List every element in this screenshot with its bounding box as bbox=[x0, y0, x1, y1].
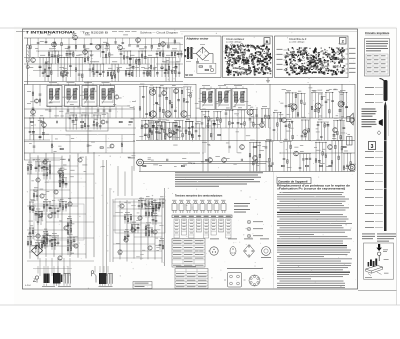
resistor R11 bbox=[150, 65, 152, 68]
resistor R40 bbox=[54, 42, 56, 45]
resistor R39 bbox=[30, 46, 32, 49]
wire W78 bbox=[144, 51, 146, 64]
wire W85 bbox=[174, 51, 176, 58]
wire W316 bbox=[334, 141, 336, 172]
wire W450 bbox=[27, 164, 29, 174]
wire W97 bbox=[92, 64, 94, 77]
value label 305 bbox=[58, 258, 62, 261]
dial scale dark bar bbox=[380, 79, 389, 232]
value label 98 bbox=[226, 107, 230, 110]
wire W256 bbox=[121, 135, 123, 153]
wire W129 bbox=[122, 38, 124, 45]
wire W5 bbox=[130, 44, 183, 46]
wire W28 bbox=[81, 58, 83, 82]
resistor R123 bbox=[244, 122, 246, 125]
junction J123 bbox=[31, 236, 32, 237]
junction J64 bbox=[256, 142, 257, 143]
wire W189 bbox=[141, 121, 143, 141]
value label 303 bbox=[50, 204, 54, 207]
value label 63 bbox=[184, 83, 188, 86]
resistor R14 bbox=[175, 70, 177, 73]
wire W130 bbox=[128, 38, 130, 45]
resistor R155 bbox=[49, 171, 51, 174]
value label 267 bbox=[159, 164, 162, 167]
wire W252 bbox=[51, 135, 53, 153]
wire W236 bbox=[24, 139, 50, 141]
value label 5 bbox=[112, 60, 117, 63]
transistor T41 bbox=[48, 214, 52, 218]
transistor T27 bbox=[222, 158, 227, 163]
junction J130 bbox=[63, 177, 64, 178]
loudspeaker LS1 bbox=[347, 113, 353, 125]
wire W332 bbox=[317, 122, 319, 141]
wire W421 bbox=[51, 239, 56, 241]
value label 237 bbox=[174, 165, 177, 168]
wire W549 bbox=[145, 227, 153, 229]
wire W146 bbox=[24, 127, 136, 129]
wire W76 bbox=[138, 51, 140, 64]
capacitor C117 bbox=[343, 128, 346, 129]
wire W364 bbox=[173, 122, 178, 124]
wire W245 bbox=[93, 114, 101, 116]
value label 292 bbox=[44, 228, 47, 231]
wire W71 bbox=[120, 51, 122, 64]
wire W297 bbox=[265, 142, 267, 172]
junction J137 bbox=[30, 228, 31, 229]
value label 242 bbox=[339, 119, 342, 122]
transistor T52 bbox=[138, 216, 142, 220]
wire W265 bbox=[273, 112, 282, 114]
junction J42 bbox=[33, 118, 34, 119]
value label 184 bbox=[195, 102, 199, 105]
wire W373 bbox=[198, 124, 200, 140]
value label 27 bbox=[40, 40, 44, 43]
electrolytic C1 bbox=[39, 66, 42, 67]
svg-text:au côté câblage: au côté câblage bbox=[289, 41, 305, 44]
wire W491 bbox=[29, 227, 34, 229]
svg-text:au côté câblage: au côté câblage bbox=[226, 41, 242, 44]
resistor R160 bbox=[67, 231, 69, 234]
wire W149 bbox=[24, 152, 200, 154]
value label 57 bbox=[204, 59, 209, 62]
capacitor C165 bbox=[46, 168, 49, 169]
wire W559 bbox=[145, 208, 153, 210]
wire W313 bbox=[325, 142, 327, 171]
resistor R103 bbox=[315, 159, 317, 162]
wire W478 bbox=[43, 160, 51, 162]
value label 240 bbox=[215, 155, 220, 158]
resistor R96 bbox=[249, 154, 251, 157]
wire W318 bbox=[341, 141, 343, 172]
value label 28 bbox=[47, 34, 50, 37]
resistor R113 bbox=[292, 135, 294, 138]
value label 302 bbox=[80, 156, 84, 159]
value label 246 bbox=[336, 114, 339, 117]
wire W456 bbox=[27, 236, 29, 246]
resistor R45 bbox=[107, 43, 109, 46]
wire W276 bbox=[300, 93, 302, 118]
junction J45 bbox=[73, 115, 74, 116]
junction J154 bbox=[149, 227, 150, 228]
wire W355 bbox=[240, 110, 242, 128]
junction J153 bbox=[142, 200, 143, 201]
resistor R151 bbox=[43, 240, 45, 243]
sidebar note box bbox=[365, 39, 390, 77]
wire W477 bbox=[73, 237, 75, 247]
resistor R178 bbox=[29, 206, 31, 209]
capacitor C58 bbox=[174, 110, 177, 111]
electrolytic C57 bbox=[165, 98, 168, 99]
resistor R177 bbox=[49, 165, 51, 168]
wire W325 bbox=[288, 122, 290, 141]
value label 238 bbox=[82, 98, 86, 101]
value label 335 bbox=[132, 221, 136, 224]
value label 40 bbox=[123, 34, 128, 37]
wire W548 bbox=[144, 201, 146, 210]
value label 44 bbox=[148, 66, 152, 69]
wire W508 bbox=[113, 201, 141, 203]
wire W300 bbox=[283, 141, 292, 143]
electrolytic C17 bbox=[165, 69, 168, 70]
transistor T15 bbox=[181, 111, 187, 117]
wire W239 bbox=[72, 115, 74, 130]
wire W68 bbox=[105, 45, 107, 65]
wire W551 bbox=[148, 228, 150, 237]
wire W155 bbox=[87, 82, 89, 153]
resistor R138 bbox=[218, 134, 221, 135]
wire W210 bbox=[182, 120, 184, 140]
junction J87 bbox=[162, 122, 163, 123]
value label 64 bbox=[142, 117, 146, 120]
wire W169 bbox=[149, 86, 161, 88]
wire W341 bbox=[201, 110, 210, 112]
resistor R114 bbox=[305, 133, 307, 136]
junction J143 bbox=[149, 225, 150, 226]
junction J75 bbox=[302, 120, 303, 121]
wire W387 bbox=[53, 153, 55, 257]
resistor R173 bbox=[41, 213, 43, 216]
wire W165 bbox=[139, 85, 148, 87]
value label 137 bbox=[96, 122, 99, 125]
junction J77 bbox=[318, 122, 319, 123]
power adapter box bbox=[185, 36, 222, 78]
earphone jack socket bbox=[349, 164, 355, 170]
wire W537 bbox=[162, 199, 164, 208]
value label 214 bbox=[29, 142, 32, 145]
junction J25 bbox=[168, 64, 169, 65]
wire W309 bbox=[315, 141, 327, 143]
capacitor C172 bbox=[41, 241, 44, 242]
wire W53 bbox=[48, 50, 59, 52]
wire W340 bbox=[343, 121, 345, 141]
wire W43 bbox=[147, 57, 158, 59]
junction J3 bbox=[64, 57, 65, 58]
value label 250 bbox=[127, 105, 130, 108]
wire W345 bbox=[213, 111, 222, 113]
value label 218 bbox=[102, 113, 106, 116]
wire W504 bbox=[140, 197, 142, 260]
resistor R165 bbox=[70, 247, 72, 250]
junction J100 bbox=[160, 118, 161, 119]
wire W327 bbox=[301, 119, 310, 121]
wire W243 bbox=[84, 115, 86, 130]
wire W105 bbox=[131, 71, 133, 78]
value label 46 bbox=[160, 66, 164, 69]
electrolytic C181 bbox=[152, 207, 155, 208]
value label 353 bbox=[142, 249, 145, 252]
wire W536 bbox=[159, 199, 161, 208]
junction J31 bbox=[159, 87, 160, 88]
junction J67 bbox=[269, 141, 270, 142]
resistor R67 bbox=[164, 129, 166, 132]
wire W77 bbox=[141, 51, 143, 64]
wire W370 bbox=[191, 122, 193, 140]
value label 359 bbox=[150, 202, 153, 205]
wire W485 bbox=[29, 201, 34, 203]
wire W187 bbox=[190, 87, 192, 118]
value label 212 bbox=[131, 118, 134, 121]
resistor R32 bbox=[107, 72, 109, 75]
wire W351 bbox=[228, 110, 230, 128]
resistor R199 bbox=[145, 212, 147, 215]
value label 204 bbox=[132, 154, 136, 157]
wire W72 bbox=[123, 51, 125, 64]
value label 104 bbox=[196, 120, 201, 123]
junction J55 bbox=[292, 92, 293, 93]
resistor R171 bbox=[41, 244, 43, 247]
value label 271 bbox=[36, 158, 40, 161]
wire W204 bbox=[168, 122, 170, 140]
value label 76 bbox=[94, 111, 99, 114]
capacitor C167 bbox=[46, 234, 49, 235]
page edge shadow bottom bbox=[0, 304, 400, 306]
wire W454 bbox=[70, 245, 72, 255]
value label 30 bbox=[59, 66, 64, 69]
wire W406 bbox=[27, 260, 94, 262]
value label 110 bbox=[255, 123, 259, 126]
wire W23 bbox=[66, 58, 68, 78]
capacitor C22 bbox=[90, 55, 93, 56]
wire W448 bbox=[70, 225, 72, 235]
wire W292 bbox=[249, 142, 251, 171]
transistor T53 bbox=[156, 204, 160, 208]
capacitor C3 bbox=[45, 62, 48, 63]
value label 273 bbox=[60, 167, 64, 170]
resistor R19 bbox=[87, 57, 89, 60]
wire W260 bbox=[256, 109, 258, 128]
junction J46 bbox=[76, 115, 77, 116]
transistor T38 bbox=[36, 178, 40, 182]
value label 15 bbox=[157, 47, 160, 50]
wire W233 bbox=[39, 117, 44, 119]
value label 128 bbox=[224, 98, 227, 101]
resistor R118 bbox=[340, 136, 342, 139]
wire W62 bbox=[84, 50, 92, 52]
resistor R121 bbox=[220, 119, 222, 122]
wire W135 bbox=[167, 38, 169, 45]
wire W93 bbox=[62, 71, 64, 82]
svg-text:Circuits imprimés: Circuits imprimés bbox=[365, 31, 390, 35]
capacitor C123 bbox=[237, 123, 240, 124]
electrolytic C163 bbox=[73, 240, 76, 241]
value label 93 bbox=[302, 116, 306, 119]
resistor R101 bbox=[287, 160, 289, 163]
wire W315 bbox=[331, 141, 333, 172]
value label 315 bbox=[74, 236, 78, 239]
value label 49 bbox=[49, 81, 57, 84]
transistor T7 bbox=[31, 58, 36, 63]
junction J63 bbox=[346, 92, 347, 93]
junction J101 bbox=[240, 118, 241, 119]
wire W241 bbox=[81, 114, 89, 116]
value label 121 bbox=[66, 134, 71, 137]
value label 166 bbox=[254, 123, 258, 126]
value label 21 bbox=[126, 67, 131, 70]
value label 280 bbox=[60, 198, 64, 201]
value label 224 bbox=[250, 121, 255, 124]
wire W200 bbox=[160, 122, 162, 141]
junction J43 bbox=[40, 118, 41, 119]
junction J32 bbox=[163, 87, 164, 88]
wire W311 bbox=[318, 142, 320, 171]
wire W544 bbox=[158, 203, 160, 212]
wire W442 bbox=[51, 207, 59, 209]
junction J76 bbox=[305, 120, 306, 121]
value label 87 bbox=[284, 138, 288, 141]
PCB box 2 index square bbox=[340, 38, 347, 45]
wire W468 bbox=[38, 211, 40, 221]
capacitor C65 bbox=[157, 132, 160, 133]
capacitor C43 bbox=[45, 42, 48, 43]
wire W268 bbox=[280, 113, 282, 141]
resistor R196 bbox=[148, 232, 150, 235]
resistor R92 bbox=[311, 106, 313, 109]
value label 48 bbox=[173, 66, 178, 69]
switch feed wires G2 bbox=[95, 266, 108, 273]
wire W172 bbox=[156, 87, 158, 118]
wire W307 bbox=[306, 154, 308, 172]
junction J116 bbox=[63, 201, 64, 202]
wire W40 bbox=[132, 58, 134, 78]
wire W2 bbox=[27, 62, 29, 85]
junction J61 bbox=[332, 92, 333, 93]
value label 51 bbox=[84, 81, 92, 84]
wire W219 bbox=[73, 107, 75, 119]
wire W60 bbox=[69, 51, 71, 58]
resistor R154 bbox=[46, 173, 48, 176]
electrolytic C150 bbox=[59, 181, 62, 182]
junction J14 bbox=[142, 51, 143, 52]
reservoir capacitor C101 bbox=[196, 58, 199, 63]
wire W497 bbox=[33, 189, 38, 191]
value label 18 bbox=[63, 67, 67, 70]
value label 1 bbox=[40, 54, 45, 57]
wire W492 bbox=[29, 228, 31, 239]
transistor T45 bbox=[58, 256, 62, 260]
capacitor C71 bbox=[49, 110, 52, 111]
capacitor C110 bbox=[346, 165, 349, 166]
wire W249 bbox=[30, 134, 135, 136]
capacitor C56 bbox=[159, 95, 162, 96]
resistor R181 bbox=[33, 194, 35, 197]
capacitor C9 bbox=[93, 73, 96, 74]
value label 331 bbox=[46, 190, 49, 193]
junction J9 bbox=[67, 51, 68, 52]
junction J126 bbox=[42, 242, 43, 243]
resistor R192 bbox=[155, 204, 157, 207]
value label 42 bbox=[135, 66, 139, 69]
screened cable pair bbox=[144, 161, 267, 163]
value label 97 bbox=[214, 108, 218, 111]
wire W225 bbox=[109, 107, 111, 119]
value label 105 bbox=[208, 117, 213, 120]
resistor R88 bbox=[292, 108, 294, 111]
transistor T2 bbox=[136, 38, 141, 43]
wire W125 bbox=[90, 38, 92, 45]
value label 43 bbox=[141, 66, 145, 69]
value label 356 bbox=[124, 201, 127, 204]
wire W231 bbox=[29, 118, 31, 140]
value label 241 bbox=[327, 99, 330, 102]
value label 108 bbox=[319, 93, 323, 96]
svg-text:Typ 92028 B: Typ 92028 B bbox=[82, 30, 108, 34]
sidebar bottom rule bbox=[358, 290, 397, 292]
wire W106 bbox=[143, 70, 151, 72]
junction J34 bbox=[145, 120, 146, 121]
junction J84 bbox=[217, 111, 218, 112]
wire W220 bbox=[79, 107, 81, 119]
wire W49 bbox=[165, 58, 167, 82]
transistor T33 bbox=[253, 156, 258, 161]
value label 103 bbox=[186, 118, 190, 121]
resistor R3 bbox=[75, 68, 77, 71]
wire W24 bbox=[69, 58, 71, 78]
capacitor C146 bbox=[41, 167, 44, 168]
page edge shadow right bbox=[396, 28, 398, 305]
capacitor C176 bbox=[145, 204, 148, 205]
value label 245 bbox=[196, 107, 200, 110]
resistor R89 bbox=[295, 94, 297, 97]
junction J7 bbox=[103, 64, 104, 65]
value label 263 bbox=[286, 130, 290, 133]
capacitor C177 bbox=[134, 229, 137, 230]
value label 295 bbox=[30, 224, 33, 227]
wire W499 bbox=[36, 190, 38, 201]
junction J60 bbox=[326, 92, 327, 93]
value label 348 bbox=[147, 201, 151, 204]
wire W147 bbox=[140, 127, 260, 129]
capacitor C128 bbox=[161, 128, 164, 129]
value label 94 bbox=[318, 118, 322, 121]
wire W399 bbox=[27, 205, 78, 207]
value label 140 bbox=[289, 127, 293, 130]
wire W222 bbox=[91, 107, 93, 119]
resistor R74 bbox=[39, 99, 41, 102]
IF transformer can bbox=[82, 84, 97, 107]
resistor R163 bbox=[30, 166, 32, 169]
value label 138 bbox=[55, 138, 58, 141]
value label 310 bbox=[84, 170, 87, 173]
junction J28 bbox=[143, 86, 144, 87]
value label 100 bbox=[150, 119, 155, 122]
resistor R117 bbox=[337, 131, 339, 134]
IF transformer can bbox=[47, 84, 62, 107]
wire W103 bbox=[125, 71, 127, 78]
resistor R69 bbox=[172, 130, 174, 133]
value label 163 bbox=[201, 161, 204, 164]
wire W207 bbox=[175, 119, 184, 121]
wire W493 bbox=[32, 228, 34, 239]
